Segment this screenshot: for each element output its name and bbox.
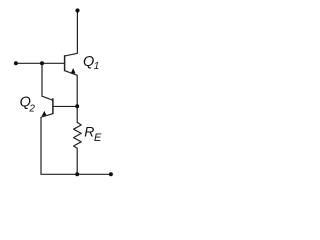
svg-text:Q: Q — [83, 54, 94, 70]
svg-text:R: R — [84, 124, 94, 140]
svg-text:E: E — [94, 132, 102, 144]
svg-text:2: 2 — [28, 103, 35, 114]
svg-text:1: 1 — [94, 61, 100, 72]
